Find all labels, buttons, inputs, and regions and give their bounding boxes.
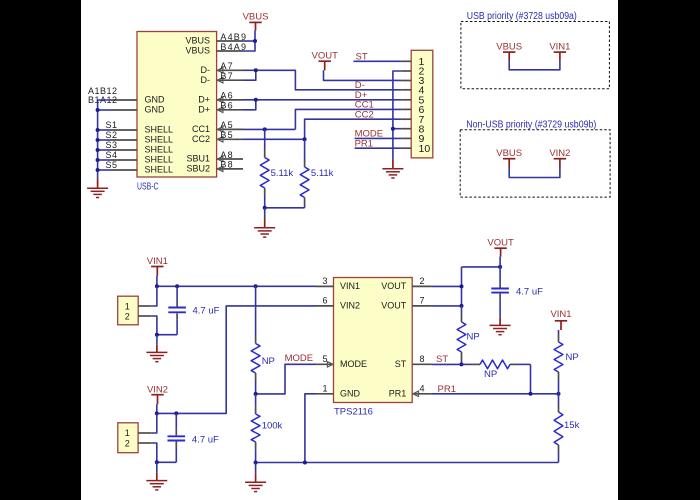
svg-text:VBUS: VBUS: [496, 41, 522, 52]
value label NP (PR1 divider): [566, 352, 579, 363]
TPS2116 pin 8 (ST): [395, 354, 432, 369]
junction D- at A7: [254, 68, 258, 72]
USB-C reference label: [137, 180, 159, 192]
svg-text:SBU1: SBU1: [186, 154, 210, 164]
svg-text:VIN1: VIN1: [340, 281, 360, 291]
svg-text:B7: B7: [220, 71, 233, 81]
net label CC2: [355, 109, 374, 120]
junction VIN1 at divider: [254, 284, 258, 288]
value label NP (ST-PR1): [484, 369, 497, 380]
wire VOUT net: [432, 267, 500, 306]
net label D+: [355, 90, 368, 101]
connector VIN2 pin 2: [125, 438, 157, 462]
value label 4.7 uF (VIN1): [193, 305, 220, 316]
svg-text:SHELL: SHELL: [145, 155, 174, 165]
resistor NP (ST-PR1): [462, 360, 531, 369]
TPS2116 pin 3 (VIN1): [316, 276, 361, 291]
junction VOUT pin2: [460, 284, 464, 288]
TPS2116 pin 1 (GND): [316, 383, 361, 398]
wire VIN2 stem: [156, 404, 158, 413]
note box Non-USB priority: [460, 120, 610, 197]
header pin 9: [401, 133, 424, 145]
wire MODE net: [256, 364, 316, 394]
junction VBUS at A4B9: [253, 39, 257, 43]
svg-text:SHELL: SHELL: [145, 145, 174, 155]
USB-C pin S2 (SHELL): [105, 130, 173, 145]
USB-C connector body: [137, 32, 217, 178]
wire PR1 to header pin 10: [355, 147, 402, 149]
resistor 100k (MODE-GND): [251, 394, 260, 463]
note box USB priority: [461, 11, 610, 89]
svg-text:MODE: MODE: [340, 359, 367, 369]
svg-text:NP: NP: [467, 332, 480, 343]
wire GND pin to rail: [305, 394, 316, 463]
svg-text:SHELL: SHELL: [145, 125, 174, 135]
resistor 5.11k (CC2 pulldown): [300, 139, 309, 208]
ground (VOUT cap): [490, 318, 511, 335]
wire VBUS-VIN2 (box 2): [509, 167, 560, 178]
wire cap1 bottom: [157, 334, 177, 336]
USB-C pin B1A12 (GND): [88, 95, 165, 114]
svg-text:4.7 uF: 4.7 uF: [516, 286, 543, 297]
svg-text:3: 3: [322, 276, 327, 286]
svg-text:D-: D-: [201, 75, 211, 85]
junction PR1 at NP: [529, 392, 533, 396]
value label 4.7 uF (VIN2): [192, 434, 219, 445]
power flag VOUT (output): [487, 238, 514, 257]
svg-text:USB priority (#3728 usb09a): USB priority (#3728 usb09a): [467, 11, 577, 22]
svg-text:B5: B5: [220, 130, 233, 140]
svg-text:ST: ST: [436, 354, 448, 365]
TPS2116 pin 4 (PR1): [389, 383, 432, 398]
svg-text:D-: D-: [201, 65, 211, 75]
power flag VBUS (box 2): [496, 148, 522, 167]
USB-C pin B5 (CC2): [192, 130, 243, 144]
10-pin header body: [411, 50, 433, 158]
junction VOUT cap: [498, 265, 502, 269]
wire MODE to header pin 9: [355, 137, 402, 139]
svg-text:4: 4: [420, 383, 425, 393]
ground (VIN2): [146, 462, 167, 490]
USB-C pin B4A9 (VBUS): [185, 42, 247, 56]
header pin 10: [401, 143, 430, 155]
ground (below header): [382, 160, 403, 178]
net label CC1: [355, 100, 374, 111]
net label MODE (bottom): [285, 353, 314, 364]
junction cap1 gnd: [155, 333, 159, 337]
junction MODE divider: [254, 392, 258, 396]
power flag VIN1 (input): [147, 256, 168, 276]
power flag VOUT (top): [312, 51, 339, 71]
junction CC1 at resistor: [263, 127, 267, 131]
wire 15k to rail: [558, 462, 560, 464]
svg-text:USB-C: USB-C: [137, 180, 159, 192]
wire VBUS-VIN1 (box 1): [509, 60, 560, 69]
svg-text:SHELL: SHELL: [145, 165, 174, 175]
svg-text:NP: NP: [566, 352, 579, 363]
net label PR1 (bottom): [438, 384, 456, 395]
junction VIN2 at cap: [174, 411, 178, 415]
svg-text:VOUT: VOUT: [487, 238, 514, 249]
svg-text:5.11k: 5.11k: [311, 168, 334, 179]
svg-text:S2: S2: [105, 130, 117, 140]
net label PR1: [355, 138, 373, 149]
svg-text:4.7 uF: 4.7 uF: [193, 305, 220, 316]
svg-text:S5: S5: [105, 160, 117, 170]
USB-C pin S4 (SHELL): [105, 150, 173, 165]
junction D+ at A6: [254, 98, 258, 102]
svg-text:VBUS: VBUS: [243, 12, 269, 23]
svg-text:5.11k: 5.11k: [271, 168, 294, 179]
svg-text:TPS2116: TPS2116: [334, 407, 373, 418]
USB-C pin S1 (SHELL): [105, 120, 173, 135]
net label D-: [355, 80, 365, 91]
svg-text:NP: NP: [484, 369, 497, 380]
svg-text:VOUT: VOUT: [381, 301, 407, 311]
junction VOUT pin7: [460, 304, 464, 308]
junction shell trunk y=130: [96, 128, 100, 132]
wire NP to PR1: [530, 364, 532, 393]
wire ST net: [432, 363, 462, 365]
svg-text:CC2: CC2: [355, 109, 374, 120]
wire D- net: [243, 70, 401, 90]
svg-text:1: 1: [125, 301, 130, 311]
svg-text:A6: A6: [220, 91, 233, 101]
value label 4.7 uF (VOUT): [516, 286, 543, 297]
svg-text:PR1: PR1: [389, 388, 407, 398]
USB-C pin B7 (D-): [201, 71, 244, 85]
junction VIN2 at stem: [155, 411, 159, 415]
wire VOUT to header pin 3: [324, 70, 402, 80]
svg-text:VOUT: VOUT: [381, 281, 407, 291]
svg-text:4.7 uF: 4.7 uF: [192, 434, 219, 445]
svg-text:S4: S4: [105, 150, 117, 160]
wire GND trunk header: [393, 71, 401, 160]
svg-text:5: 5: [322, 354, 327, 364]
USB-C pin B6 (D+): [198, 101, 243, 115]
power flag VBUS (top): [243, 12, 269, 31]
header pin 2: [401, 66, 424, 78]
junction shell trunk y=140: [96, 138, 100, 142]
capacitor 4.7 uF (VIN1): [168, 286, 186, 334]
svg-text:7: 7: [420, 296, 425, 306]
header pin 3: [401, 75, 424, 87]
TPS2116 reference label: [334, 407, 373, 418]
svg-text:1: 1: [322, 383, 327, 393]
svg-text:A7: A7: [220, 61, 233, 71]
USB-C pin A1B12 (GND): [88, 86, 165, 105]
junction rail at gnd pin: [303, 461, 307, 465]
junction VIN1 at cap: [175, 284, 179, 288]
USB-C pin A8 (SBU1): [186, 150, 243, 164]
power flag VIN2 (input): [147, 385, 168, 405]
svg-text:CC1: CC1: [192, 124, 210, 134]
junction PR1 at divider: [557, 392, 561, 396]
wire VIN2 to TPS pin 6: [157, 306, 316, 414]
svg-text:VOUT: VOUT: [312, 51, 339, 62]
value label 5.11k (left): [271, 168, 294, 179]
junction shell trunk y=160: [96, 158, 100, 162]
svg-text:10: 10: [419, 143, 431, 155]
header pin 4: [401, 84, 424, 96]
junction resistor gnd: [263, 206, 267, 210]
junction VIN1 at stem: [155, 284, 159, 288]
junction CC2 at resistor: [303, 137, 307, 141]
USB-C pin A5 (CC1): [192, 120, 243, 134]
header pin 1: [401, 56, 424, 68]
svg-text:VBUS: VBUS: [185, 36, 210, 46]
svg-text:A8: A8: [220, 150, 233, 160]
ground (CC pulldowns): [254, 208, 275, 237]
wire cap2 bottom: [157, 461, 177, 463]
svg-text:SHELL: SHELL: [145, 135, 174, 145]
svg-text:GND: GND: [145, 95, 166, 105]
wire CC2 net: [243, 119, 401, 139]
value label 100k: [262, 421, 283, 432]
svg-text:2: 2: [420, 276, 425, 286]
resistor NP (VOUT-ST): [457, 306, 466, 365]
USB-C pin B8 (SBU2): [186, 160, 243, 174]
svg-text:MODE: MODE: [285, 353, 314, 364]
svg-text:VIN1: VIN1: [550, 309, 571, 320]
wire resistor bottoms to ground: [265, 207, 305, 209]
header pin 8: [401, 123, 424, 135]
svg-text:PR1: PR1: [438, 384, 456, 395]
wire VBUS to pins A4B9/B4A9: [243, 31, 255, 52]
svg-text:6: 6: [322, 296, 327, 306]
ground (bottom rail): [245, 463, 266, 492]
wire ground rail: [256, 462, 559, 464]
junction rail at 100k: [254, 461, 258, 465]
svg-text:VIN1: VIN1: [549, 41, 570, 52]
svg-text:8: 8: [420, 354, 425, 364]
svg-text:100k: 100k: [262, 421, 283, 432]
power flag VBUS (box 1): [496, 41, 522, 60]
2-pin connector body (VIN2): [118, 423, 138, 453]
ground (USB-C shell): [87, 178, 108, 197]
capacitor 4.7 uF (VIN2): [168, 413, 186, 462]
value label NP (MODE divider): [262, 356, 275, 367]
svg-text:VIN2: VIN2: [549, 148, 570, 159]
svg-text:CC2: CC2: [192, 134, 210, 144]
IC TPS2116 body: [334, 278, 413, 403]
svg-text:A5: A5: [220, 120, 233, 130]
header pin 7: [401, 114, 424, 126]
value label 15k: [564, 420, 580, 431]
USB-C pin S3 (SHELL): [105, 140, 173, 155]
wire GND shell trunk: [98, 100, 111, 178]
svg-text:VBUS: VBUS: [496, 148, 522, 159]
junction cap2 gnd: [155, 460, 159, 464]
wire D+ net: [243, 100, 401, 110]
TPS2116 pin 5 (MODE): [316, 354, 368, 369]
resistor 5.11k (CC1 pulldown): [260, 129, 269, 207]
junction shell trunk y=170: [96, 168, 100, 172]
junction header gnd pin 8: [391, 127, 395, 131]
connector VIN2 pin 1: [125, 413, 157, 438]
USB-C pin A6 (D+): [198, 91, 243, 105]
svg-text:SBU2: SBU2: [186, 164, 210, 174]
connector VIN1 pin 1: [125, 286, 157, 311]
header pin 5: [401, 94, 424, 106]
connector VIN1 pin 2: [125, 312, 157, 335]
svg-text:S1: S1: [105, 120, 117, 130]
net label MODE: [355, 129, 384, 140]
wire CC1 net: [243, 109, 401, 129]
value label 5.11k (right): [311, 168, 334, 179]
svg-text:VIN1: VIN1: [147, 256, 168, 267]
svg-text:GND: GND: [145, 105, 166, 115]
svg-text:GND: GND: [340, 388, 361, 398]
TPS2116 pin 2 (VOUT): [381, 276, 432, 291]
svg-text:VBUS: VBUS: [185, 46, 210, 56]
TPS2116 pin 7 (VOUT): [381, 296, 432, 311]
power flag VIN1 (PR1 divider): [550, 309, 571, 330]
svg-text:B6: B6: [220, 101, 233, 111]
svg-text:2: 2: [125, 312, 130, 322]
svg-text:ST: ST: [395, 359, 407, 369]
resistor NP (VIN1-MODE): [251, 286, 260, 394]
junction shell trunk y=110: [96, 108, 100, 112]
value label NP (ST pullup): [467, 332, 480, 343]
svg-text:NP: NP: [262, 356, 275, 367]
header pin 6: [401, 104, 424, 116]
svg-text:B8: B8: [220, 160, 233, 170]
ground (VIN1): [146, 335, 167, 362]
svg-text:Non-USB priority (#3729 usb09b: Non-USB priority (#3729 usb09b): [466, 120, 596, 131]
svg-text:1: 1: [125, 428, 130, 438]
svg-text:15k: 15k: [564, 420, 580, 431]
wire PR1 net: [432, 393, 559, 395]
capacitor 4.7 uF (VOUT): [491, 267, 509, 318]
svg-text:VIN2: VIN2: [340, 301, 360, 311]
USB-C pin S5 (SHELL): [105, 160, 173, 175]
junction shell trunk y=150: [96, 148, 100, 152]
resistor 15k (PR1-GND): [554, 394, 563, 463]
USB-C pin A4B9 (VBUS): [185, 32, 247, 46]
svg-text:D+: D+: [198, 104, 210, 114]
USB-C pin A7 (D-): [201, 61, 244, 75]
power flag VIN2 (box 2): [549, 148, 570, 167]
power flag VIN1 (box 1): [549, 41, 570, 60]
resistor NP (VIN1-PR1): [554, 330, 563, 394]
net label ST: [356, 52, 368, 63]
wire VIN1 rail: [157, 276, 316, 286]
wire VOUT stem: [499, 257, 501, 267]
svg-text:D+: D+: [198, 95, 210, 105]
wire ST to header pin 1: [353, 60, 401, 62]
svg-text:S3: S3: [105, 140, 117, 150]
svg-text:2: 2: [125, 438, 130, 448]
net label ST (bottom): [436, 354, 448, 365]
junction ST: [460, 362, 464, 366]
2-pin connector body (VIN1): [118, 296, 139, 325]
TPS2116 pin 6 (VIN2): [316, 296, 361, 311]
